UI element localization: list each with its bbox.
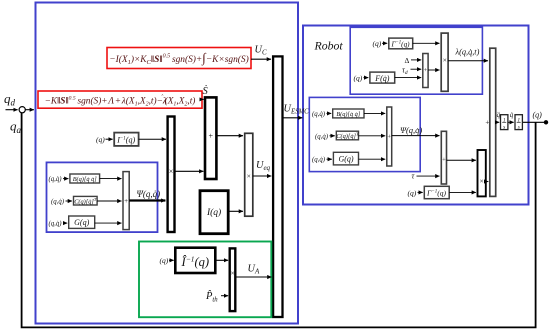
wire S7 to int1 — [496, 121, 500, 123]
multiply block M3 — [441, 33, 448, 91]
svg-text:C(q)[q̇]T: C(q)[q̇]T — [336, 132, 359, 141]
reaching law box R1 (red) — [107, 48, 251, 69]
block C(q) — [74, 196, 98, 205]
block B2(q) — [333, 109, 364, 118]
multiply block M5 — [230, 248, 236, 311]
sum block S6 — [441, 131, 446, 184]
block C2(q) — [336, 131, 359, 140]
svg-text:(q): (q) — [373, 39, 382, 48]
svg-text:+: + — [485, 119, 489, 127]
svg-text:(q,q̇): (q,q̇) — [315, 133, 329, 140]
svg-text:Ueq: Ueq — [256, 160, 271, 172]
svg-text:qa: qa — [10, 119, 22, 136]
svg-text:B(q)[q̇ q̇]: B(q)[q̇ q̇] — [73, 176, 98, 183]
svg-text:UESMC: UESMC — [284, 104, 310, 116]
wire tau_d to S4 — [411, 68, 422, 70]
label q_d — [4, 91, 16, 108]
wire Ihat to M5 — [215, 259, 228, 261]
label (q,qdot) r2 — [315, 133, 329, 140]
svg-text:UA: UA — [248, 264, 260, 276]
block Gamma2 — [424, 186, 449, 198]
label qdot out — [510, 111, 514, 119]
svg-text:s: s — [503, 124, 505, 130]
label Psi2 — [400, 125, 422, 135]
svg-text:+: + — [424, 67, 428, 74]
block Ihat-1(q) — [175, 248, 215, 273]
wire Phat to M5 — [221, 295, 228, 297]
svg-text:−K‖S‖0.5 sgn(S)+ Λ + λ(X1,X2,t: −K‖S‖0.5 sgn(S)+ Λ + λ(X1,X2,t)−λˆ(X1,X2… — [45, 94, 196, 108]
block Gamma1 — [389, 38, 413, 49]
sum block S7 (robot) — [485, 48, 495, 196]
svg-text:×: × — [443, 55, 447, 64]
svg-text:×: × — [247, 172, 251, 181]
label (q) F — [354, 74, 363, 83]
wire to B2 — [327, 112, 332, 114]
svg-text:1: 1 — [517, 117, 520, 123]
svg-text:(q,q̇): (q,q̇) — [49, 176, 63, 183]
robot inner box 2 (blue) — [309, 97, 420, 171]
svg-text:Ψ(q,q̇): Ψ(q,q̇) — [400, 125, 422, 135]
sum block S5 — [387, 107, 392, 166]
svg-text:(q): (q) — [533, 110, 543, 119]
wire (q) to Gamma2 — [418, 191, 423, 193]
wire F to S4 — [395, 77, 422, 79]
label q_a — [10, 119, 22, 136]
svg-text:−I(X1)×KC‖S‖0.5 sgn(S)+∫−K×sgn: −I(X1)×KC‖S‖0.5 sgn(S)+∫−K×sgn(S) — [109, 50, 248, 66]
wire feedback loop — [22, 113, 536, 327]
label Psi(q,qdot) — [137, 189, 161, 199]
svg-text:Δ: Δ — [405, 56, 410, 65]
wire Delta to S4 — [411, 59, 421, 61]
svg-text:s: s — [518, 124, 520, 130]
wire to G — [63, 222, 67, 224]
svg-text:(q): (q) — [160, 256, 169, 265]
wire B to S2 — [100, 178, 122, 180]
multiply block M4 — [478, 150, 486, 196]
svg-text:G(q): G(q) — [74, 218, 89, 227]
wire Psi2 to S6 — [392, 135, 440, 137]
label (q) gamma2 — [408, 188, 417, 197]
wire (q) to F — [364, 77, 369, 79]
node output dot — [544, 120, 548, 124]
wire B2 to S5 — [364, 112, 385, 114]
wire int1 to int2 — [508, 121, 514, 123]
sum block S1 — [205, 97, 216, 179]
label (q,qdot) row2 — [51, 198, 65, 205]
svg-text:F(q̇): F(q̇) — [374, 74, 390, 83]
svg-text:τ: τ — [412, 172, 416, 181]
svg-text:+: + — [208, 132, 213, 141]
wire tau to S6 — [417, 175, 440, 177]
svg-text:Ṡ: Ṡ — [203, 85, 209, 97]
wire (q) to Ihat — [169, 259, 174, 261]
label Robot — [314, 39, 344, 53]
svg-text:G(q): G(q) — [338, 155, 353, 164]
svg-text:C(q)[q̇]T: C(q)[q̇]T — [74, 197, 97, 206]
block G2(q) — [333, 152, 358, 165]
label tau_d — [402, 65, 408, 76]
multiply block M1 — [168, 117, 175, 233]
label (q,qdot) r3 — [312, 157, 326, 164]
svg-text:Γ−1(q): Γ−1(q) — [426, 188, 446, 197]
svg-text:I−1(q): I−1(q) — [116, 135, 135, 144]
wire S4 to M3 — [428, 69, 439, 71]
label (q) gamma1 — [373, 39, 382, 48]
label (q) observer — [160, 256, 169, 265]
wire Psi to M1 (thick) — [129, 199, 165, 201]
summing junction — [19, 107, 25, 113]
controller box (big blue) — [36, 3, 299, 324]
svg-text:+: + — [387, 133, 391, 140]
wire G to S2 — [95, 222, 122, 224]
label Delta — [405, 56, 410, 65]
svg-text:Î−1(q): Î−1(q) — [181, 254, 210, 269]
label qddot — [497, 111, 501, 119]
wire M4 to S7 — [486, 181, 489, 183]
integrator 2 — [515, 115, 522, 131]
wire lambda to S7 — [448, 60, 488, 62]
wire I-1 to M1 — [139, 138, 166, 140]
label U_eq — [256, 160, 271, 172]
svg-text:(q,q̇): (q,q̇) — [312, 157, 326, 164]
dynamics box (controller inner blue) — [47, 162, 158, 232]
block F(qdot) — [370, 72, 395, 83]
block B(q) — [70, 174, 100, 183]
svg-text:Γ−1(q): Γ−1(q) — [390, 40, 410, 48]
svg-text:τd: τd — [402, 65, 408, 76]
wire C2 to S5 — [359, 135, 386, 137]
sum block S4 — [423, 54, 428, 88]
wire M1 to S1 — [175, 170, 204, 172]
block G(q) — [69, 216, 95, 228]
label (q) for I-1 — [96, 135, 105, 144]
label U_ESMC — [284, 104, 310, 116]
wire U_A — [235, 276, 271, 278]
svg-text:qd: qd — [4, 91, 16, 108]
svg-text:B(q)[q̇ q̇]: B(q)[q̇ q̇] — [336, 111, 361, 118]
multiply block M2 — [245, 133, 253, 216]
integrator 1 — [501, 115, 508, 131]
label U_A — [248, 264, 260, 276]
svg-text:Robot: Robot — [314, 39, 344, 53]
wire C to S2 — [97, 200, 121, 202]
wire output (q) — [522, 121, 545, 123]
svg-text:(q): (q) — [354, 74, 363, 83]
label tau — [412, 172, 416, 181]
svg-text:I(q): I(q) — [206, 207, 221, 218]
wire to C2 — [330, 135, 335, 137]
robot inner box 1 (blue) — [350, 27, 482, 94]
wire I(q) to M2 — [228, 210, 243, 212]
block I-1(q) — [114, 133, 138, 146]
label (q,qdot) r1 — [312, 111, 326, 118]
label P hat th — [205, 289, 218, 303]
robot box (blue) — [303, 26, 529, 205]
wire (q) to Gamma1 — [382, 42, 387, 44]
wire junction to controller — [25, 109, 34, 111]
svg-text:1: 1 — [503, 117, 506, 123]
label (q,qdot) row1 — [49, 176, 63, 183]
wire to C — [66, 200, 73, 202]
wire to B — [63, 178, 68, 180]
wire U_eq — [253, 175, 271, 177]
svg-text:(q,q̇): (q,q̇) — [51, 198, 65, 205]
wire to G2 — [327, 158, 332, 160]
sliding surface box R2 (red) — [38, 91, 202, 108]
sum block S2 — [123, 172, 129, 230]
svg-text:(q,q̇): (q,q̇) — [49, 221, 63, 228]
wire q_d input — [6, 109, 18, 111]
sum block S3 (U_ESMC) — [273, 56, 282, 317]
svg-text:q̇: q̇ — [510, 111, 514, 119]
wire G2 to S5 — [359, 158, 386, 160]
svg-text:×: × — [479, 176, 483, 185]
svg-text:(q,q̇): (q,q̇) — [312, 111, 326, 118]
svg-text:×: × — [230, 269, 234, 278]
wire S dot — [202, 85, 209, 99]
label lambda(q,qdot,t) — [455, 48, 480, 57]
observer box (green) — [139, 242, 271, 318]
svg-text:(q): (q) — [408, 188, 417, 197]
label (q,qdot) row3 — [49, 221, 63, 228]
wire U_ESMC — [283, 117, 303, 119]
svg-text:P̂th: P̂th — [205, 289, 218, 303]
svg-text:+: + — [442, 157, 446, 164]
block I(q) — [200, 191, 228, 234]
wire (q) to I-1 — [106, 138, 113, 140]
wire U_C — [251, 45, 271, 60]
svg-text:λ(q,q̇,t): λ(q,q̇,t) — [455, 48, 480, 57]
wire S1 to M2 — [216, 135, 243, 137]
svg-text:UC: UC — [255, 45, 267, 57]
svg-text:(q): (q) — [96, 135, 105, 144]
wire S6 to M4 — [447, 159, 476, 161]
svg-text:+: + — [124, 197, 128, 205]
svg-text:×: × — [169, 167, 174, 176]
svg-text:Ψ(q,q̇): Ψ(q,q̇) — [137, 189, 161, 199]
label (q) out — [533, 110, 543, 119]
wire Gamma2 to M4 — [449, 191, 476, 193]
wire Gamma1 to M3 — [413, 42, 440, 44]
